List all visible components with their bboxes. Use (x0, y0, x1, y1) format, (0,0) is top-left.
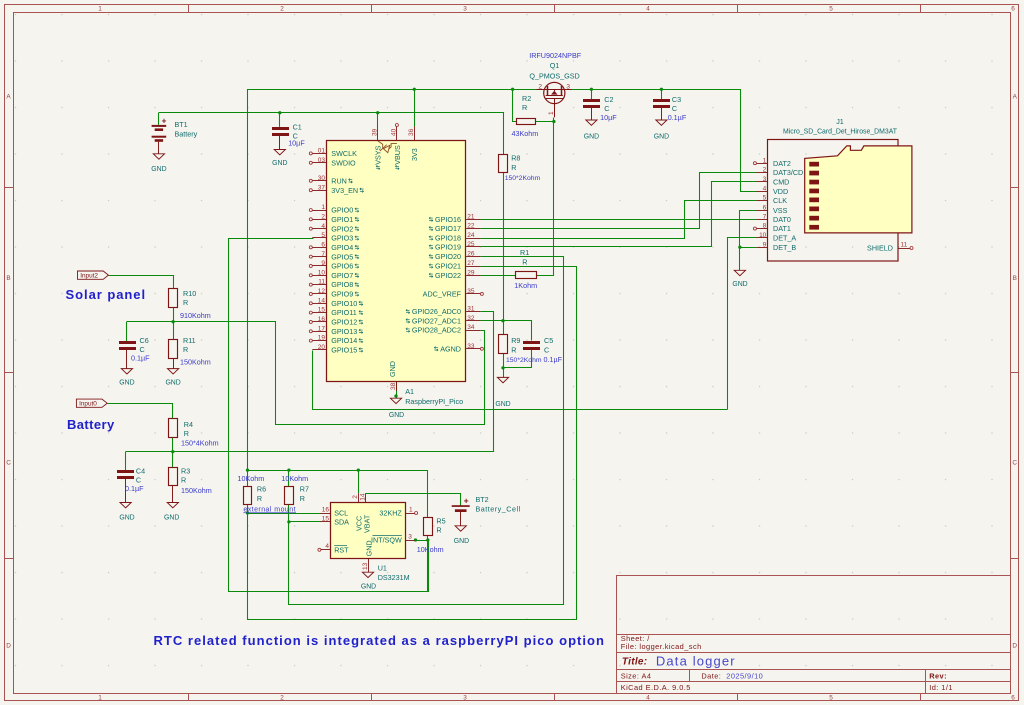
svg-text:11: 11 (318, 279, 325, 286)
capacitor C6 (119, 341, 136, 344)
wire solar divider node (127, 322, 485, 425)
svg-text:RaspberryPI_Pico: RaspberryPI_Pico (405, 397, 463, 406)
svg-text:1: 1 (409, 506, 413, 513)
svg-text:39: 39 (372, 128, 379, 136)
wire GPIO3 to INT chain (229, 239, 429, 592)
wire SD VSS to ground (740, 211, 757, 271)
pin 5 CLK (756, 200, 768, 202)
wire R5 bottom to INT/SQW (415, 536, 428, 541)
svg-text:2: 2 (280, 6, 284, 13)
wire C1 to rail (279, 113, 281, 127)
pin 4 GPIO2 (312, 228, 326, 230)
wire R11 top (173, 322, 175, 340)
svg-text:GND: GND (361, 583, 376, 590)
svg-text:GPIO9: GPIO9 (331, 290, 353, 299)
svg-text:GND: GND (389, 412, 404, 419)
ground (586, 120, 597, 125)
svg-text:Battery: Battery (175, 130, 198, 139)
wire VBAT to BT2 (366, 494, 461, 506)
resistor R1 (516, 272, 537, 279)
svg-text:1: 1 (98, 695, 102, 702)
svg-text:9: 9 (763, 241, 767, 248)
pin 26 GPIO20 (466, 256, 480, 258)
svg-text:GPIO8: GPIO8 (331, 280, 353, 289)
rtc pin VCC (358, 493, 360, 502)
svg-text:7: 7 (763, 213, 767, 220)
svg-text:35: 35 (467, 288, 475, 295)
pin 9 GPIO6 (312, 265, 326, 267)
pin 03 SWDIO (312, 162, 326, 164)
wire R9 top (503, 321, 505, 335)
svg-text:GPIO18: GPIO18 (435, 234, 461, 243)
wire R6 bottom to SCL (248, 505, 321, 514)
junction (426, 538, 429, 541)
svg-text:0.1µF: 0.1µF (544, 355, 563, 364)
pin 10 GPIO7 (312, 275, 326, 277)
wire battery divider node to ADC0 (126, 312, 494, 452)
svg-text:AGND: AGND (440, 344, 461, 353)
svg-text:13: 13 (362, 562, 369, 570)
svg-text:C4: C4 (136, 466, 145, 475)
svg-text:150Kohm: 150Kohm (181, 486, 212, 495)
svg-text:R: R (522, 257, 527, 266)
svg-text:31: 31 (467, 306, 475, 313)
junction (246, 511, 249, 514)
svg-text:C6: C6 (140, 336, 149, 345)
wire R6 top (247, 470, 249, 486)
svg-text:Size: A4: Size: A4 (621, 671, 652, 680)
svg-text:DAT1: DAT1 (773, 224, 791, 233)
wire C5 bottom (504, 350, 532, 368)
pin 40 VBUS (396, 127, 398, 141)
svg-text:R1: R1 (520, 248, 529, 257)
global label Input0 (76, 399, 107, 407)
svg-text:VBUS: VBUS (393, 145, 402, 165)
svg-text:10µF: 10µF (600, 113, 617, 122)
svg-text:2: 2 (763, 167, 767, 174)
wire GPIO22 to R1 (480, 275, 515, 277)
svg-text:C2: C2 (604, 95, 613, 104)
resistor R9 (499, 335, 508, 354)
svg-text:DAT3/CD: DAT3/CD (773, 168, 803, 177)
svg-text:GPIO2: GPIO2 (331, 224, 353, 233)
wire 3V3 pin (414, 89, 416, 126)
svg-text:GND: GND (119, 379, 134, 386)
junction (287, 468, 290, 471)
svg-text:14: 14 (360, 493, 367, 501)
svg-text:36: 36 (408, 128, 415, 136)
svg-text:R: R (183, 345, 188, 354)
svg-text:Solar panel: Solar panel (66, 287, 147, 302)
svg-text:15: 15 (318, 307, 326, 314)
pin 22 GPIO17 (466, 228, 480, 230)
pin 1 GPIO0 (312, 210, 326, 212)
pin 9 DET_B (756, 247, 768, 249)
svg-text:3: 3 (463, 6, 467, 13)
battery BT1 (152, 125, 167, 127)
svg-text:GPIO28_ADC2: GPIO28_ADC2 (412, 326, 461, 335)
svg-text:external mount: external mount (243, 506, 296, 513)
pin 5 GPIO3 (312, 237, 326, 239)
pico internal diode (378, 141, 383, 148)
svg-text:GPIO21: GPIO21 (435, 262, 461, 271)
svg-text:03: 03 (318, 157, 326, 164)
ic A1 RaspberryPI_Pico body (327, 141, 466, 382)
junction (394, 394, 397, 397)
svg-text:3V3: 3V3 (410, 148, 419, 161)
svg-text:38: 38 (390, 382, 397, 390)
svg-text:GND: GND (454, 538, 469, 545)
svg-text:1: 1 (763, 157, 767, 164)
frame column ticks (188, 5, 190, 13)
svg-text:GPIO10: GPIO10 (331, 299, 357, 308)
wire GPIO20 to SDA rail (289, 257, 564, 605)
svg-text:GND: GND (164, 514, 179, 521)
svg-text:910Kohm: 910Kohm (180, 311, 211, 320)
pin 10 DET_A (756, 237, 768, 239)
svg-text:GPIO4: GPIO4 (331, 243, 353, 252)
svg-text:C: C (1012, 459, 1017, 466)
svg-text:GPIO0: GPIO0 (331, 206, 353, 215)
svg-text:150*4Kohm: 150*4Kohm (181, 439, 219, 448)
svg-text:GPIO16: GPIO16 (435, 215, 461, 224)
svg-text:Input2: Input2 (80, 273, 98, 280)
svg-text:2: 2 (538, 83, 542, 90)
svg-text:20: 20 (318, 344, 326, 351)
pin 24 GPIO18 (466, 238, 480, 240)
pin 20 GPIO15 (312, 349, 326, 351)
svg-text:150*2Kohm: 150*2Kohm (506, 357, 542, 364)
svg-text:30: 30 (318, 175, 326, 182)
junction (171, 320, 174, 323)
sd card contact pads (809, 162, 819, 167)
svg-text:R11: R11 (183, 336, 196, 345)
svg-text:GPIO6: GPIO6 (331, 262, 353, 271)
svg-text:+: + (464, 495, 469, 505)
pin 27 GPIO21 (466, 266, 480, 268)
wire R7 top (288, 470, 290, 486)
svg-text:GPIO5: GPIO5 (331, 252, 353, 261)
ic U1 DS3231M body (331, 503, 406, 559)
svg-text:150*2Kohm: 150*2Kohm (505, 175, 541, 182)
resistor R5 (424, 518, 433, 536)
pin 33 AGND (466, 348, 480, 350)
svg-text:C: C (604, 104, 609, 113)
svg-text:B: B (6, 275, 10, 282)
junction (171, 450, 174, 453)
svg-text:34: 34 (467, 324, 475, 331)
svg-text:GND: GND (732, 281, 747, 288)
svg-text:GND: GND (119, 514, 134, 521)
pico bottom pin GND (396, 382, 398, 392)
capacitor C1 (272, 127, 289, 130)
ground (455, 526, 466, 531)
pin 8 DAT1 (756, 228, 768, 230)
wire VCC pin from rail (358, 470, 360, 493)
pin 4 VDD (756, 191, 768, 193)
svg-text:DAT0: DAT0 (773, 215, 791, 224)
ground (362, 572, 373, 577)
svg-text:GPIO27_ADC1: GPIO27_ADC1 (412, 316, 461, 325)
svg-text:0.1µF: 0.1µF (131, 353, 150, 362)
svg-text:RUN: RUN (331, 176, 347, 185)
junction (590, 88, 593, 91)
capacitor C2 (583, 99, 600, 102)
svg-text:11: 11 (901, 241, 908, 248)
svg-text:24: 24 (467, 232, 475, 239)
svg-text:32KHZ: 32KHZ (379, 509, 402, 518)
pin 39 VSYS (377, 127, 379, 141)
svg-text:R3: R3 (181, 466, 190, 475)
svg-text:GND: GND (584, 134, 599, 141)
svg-text:19: 19 (318, 335, 326, 342)
svg-text:Q1: Q1 (550, 61, 560, 70)
svg-text:R: R (184, 429, 189, 438)
pin 21 GPIO16 (466, 219, 480, 221)
ground (497, 377, 508, 382)
resistor R3 (169, 468, 178, 486)
svg-text:RTC related function is integr: RTC related function is integrated as a … (154, 633, 605, 648)
wire Input2 to R10 (109, 276, 174, 289)
svg-text:GPIO17: GPIO17 (435, 224, 461, 233)
svg-text:01: 01 (318, 148, 326, 155)
frame row ticks (5, 187, 14, 189)
svg-text:GPIO1: GPIO1 (331, 215, 353, 224)
svg-text:8: 8 (763, 223, 767, 230)
svg-text:4: 4 (646, 6, 650, 13)
pin 3 CMD (756, 181, 768, 183)
svg-text:DET_A: DET_A (773, 233, 796, 242)
svg-text:4: 4 (763, 185, 767, 192)
svg-text:3: 3 (408, 533, 412, 540)
junction (357, 468, 360, 471)
junction (376, 111, 379, 114)
svg-text:R5: R5 (436, 516, 445, 525)
junction (501, 366, 504, 369)
svg-text:2: 2 (352, 495, 359, 499)
wire GPIO21 to SCL rail (248, 267, 577, 620)
pin 35 ADC_VREF (466, 293, 480, 295)
svg-text:GPIO14: GPIO14 (331, 336, 357, 345)
junction (660, 88, 663, 91)
pin 6 GPIO4 (312, 247, 326, 249)
svg-text:Rev:: Rev: (929, 671, 947, 680)
svg-text:GND: GND (151, 166, 166, 173)
svg-text:GPIO7: GPIO7 (331, 271, 353, 280)
svg-text:R7: R7 (300, 485, 309, 494)
junction (501, 319, 504, 322)
svg-text:GPIO19: GPIO19 (435, 243, 461, 252)
svg-text:GPIO11: GPIO11 (331, 308, 356, 317)
rtc pin SDA (320, 521, 330, 523)
svg-text:Data logger: Data logger (656, 653, 736, 668)
wire GPIO16 to DAT0 (480, 219, 756, 221)
svg-text:SWDIO: SWDIO (331, 158, 356, 167)
svg-text:R: R (522, 103, 527, 112)
svg-text:4: 4 (325, 543, 329, 550)
svg-text:C3: C3 (672, 95, 681, 104)
svg-text:INT/SQW: INT/SQW (371, 536, 402, 545)
svg-text:KiCad E.D.A. 9.0.5: KiCad E.D.A. 9.0.5 (621, 683, 691, 692)
wire pico GND pin node (396, 382, 398, 399)
wire gate chain down to R1 (537, 118, 554, 276)
svg-text:DS3231M: DS3231M (378, 573, 410, 582)
svg-text:32: 32 (467, 315, 475, 322)
wire R4 bottom (172, 437, 174, 452)
wire R10 bottom (173, 308, 175, 322)
svg-text:33: 33 (467, 343, 475, 350)
svg-text:10Kohm: 10Kohm (238, 474, 265, 483)
svg-text:1: 1 (548, 111, 555, 115)
wire R3 top (172, 452, 174, 468)
svg-text:Battery: Battery (67, 417, 115, 432)
svg-text:SDA: SDA (334, 518, 349, 527)
svg-text:GPIO15: GPIO15 (331, 346, 357, 355)
svg-text:6: 6 (1011, 6, 1015, 13)
resistor R7 (285, 487, 294, 505)
svg-text:R: R (257, 494, 262, 503)
svg-text:Title:: Title: (622, 656, 648, 667)
pin 12 GPIO9 (312, 293, 326, 295)
resistor R2 (517, 119, 536, 125)
rtc pin 32KHZ (405, 513, 414, 515)
svg-text:22: 22 (467, 223, 475, 230)
ground (167, 503, 178, 508)
pin 7 DAT0 (756, 219, 768, 221)
ground (390, 398, 401, 403)
svg-text:7: 7 (321, 251, 325, 258)
svg-text:D: D (1012, 642, 1017, 649)
pin 17 GPIO13 (312, 331, 326, 333)
rtc pin GND (368, 559, 370, 572)
wire R7 bottom to SDA (289, 505, 321, 522)
svg-text:21: 21 (467, 213, 475, 220)
svg-text:2: 2 (321, 213, 325, 220)
svg-text:R2: R2 (522, 94, 531, 103)
svg-text:C: C (672, 104, 677, 113)
svg-text:GPIO22: GPIO22 (435, 271, 461, 280)
sd SHIELD pin 11 (898, 248, 910, 250)
svg-text:CMD: CMD (773, 178, 789, 187)
svg-text:26: 26 (467, 251, 475, 258)
svg-text:37: 37 (318, 184, 326, 191)
svg-text:BT2: BT2 (476, 495, 489, 504)
svg-text:GPIO13: GPIO13 (331, 327, 357, 336)
svg-text:Q_PMOS_GSD: Q_PMOS_GSD (529, 71, 579, 80)
svg-text:1: 1 (321, 204, 325, 211)
resistor R4 (169, 419, 178, 438)
junction (511, 88, 514, 91)
rtc pin VBAT (365, 493, 367, 502)
pin 31 GPIO26_ADC0 (466, 311, 480, 313)
pin 25 GPIO19 (466, 246, 480, 248)
svg-text:25: 25 (467, 241, 475, 248)
capacitor C5 (523, 341, 540, 344)
svg-text:R: R (511, 345, 516, 354)
svg-text:GND: GND (654, 134, 669, 141)
svg-text:R10: R10 (183, 289, 196, 298)
wire R2 to gate junction (536, 121, 554, 123)
svg-text:9: 9 (321, 260, 325, 267)
svg-text:R8: R8 (511, 154, 520, 163)
svg-text:ADC_VREF: ADC_VREF (423, 290, 462, 299)
wire R9 bottom node (503, 354, 505, 378)
svg-text:Date:: Date: (701, 671, 721, 680)
ground (656, 120, 667, 125)
ground (121, 369, 132, 374)
svg-text:VBAT: VBAT (363, 514, 372, 533)
svg-text:R: R (183, 298, 188, 307)
capacitor C3 (653, 99, 670, 102)
svg-text:Battery_Cell: Battery_Cell (476, 505, 521, 514)
svg-text:12: 12 (318, 288, 326, 295)
svg-text:1: 1 (98, 6, 102, 13)
pin 32 GPIO27_ADC1 (466, 320, 480, 322)
wire 3V3 rail right segment to SD VDD (572, 90, 757, 192)
svg-text:6: 6 (321, 241, 325, 248)
svg-text:10: 10 (759, 232, 767, 239)
ground (274, 150, 285, 155)
wire BT1 to rail (158, 113, 160, 125)
svg-text:DAT2: DAT2 (773, 159, 791, 168)
pin 16 GPIO12 (312, 321, 326, 323)
svg-text:6: 6 (763, 204, 767, 211)
svg-text:A: A (1013, 93, 1018, 100)
pin 14 GPIO10 (312, 303, 326, 305)
svg-text:GPIO3: GPIO3 (331, 234, 353, 243)
wire C2 branch (591, 89, 593, 99)
svg-text:R: R (181, 476, 186, 485)
svg-text:+: + (162, 117, 167, 126)
svg-text:GND: GND (272, 160, 287, 167)
svg-text:1Kohm: 1Kohm (514, 281, 537, 290)
svg-text:VDD: VDD (773, 187, 788, 196)
wire Input0 to R4 (108, 404, 173, 419)
svg-text:16: 16 (318, 316, 326, 323)
svg-text:4: 4 (646, 695, 650, 702)
svg-text:10Kohm: 10Kohm (417, 545, 444, 554)
wire INT junction down (427, 540, 429, 591)
svg-text:15: 15 (322, 515, 330, 522)
wire SD DET_A down to GPIO15 rail (728, 238, 757, 410)
wire R8 bottom to GPIO27 junction (503, 173, 505, 321)
junction (414, 538, 417, 541)
svg-text:GND: GND (364, 540, 373, 556)
global label Input2 (78, 271, 109, 279)
pin 6 VSS (756, 210, 768, 212)
svg-text:C1: C1 (293, 123, 302, 132)
wire GPIO17 to DAT3/CD (481, 173, 757, 229)
svg-text:5: 5 (321, 232, 325, 239)
wire VSYS pin (377, 113, 379, 127)
junction (246, 468, 249, 471)
wire C6 top (126, 322, 128, 342)
svg-text:4: 4 (321, 223, 325, 230)
pin 37 3V3_EN (312, 190, 326, 192)
resistor R6 (244, 487, 252, 505)
svg-text:A1: A1 (405, 387, 414, 396)
svg-text:GPIO20: GPIO20 (435, 252, 461, 261)
wire C4 top (125, 452, 127, 470)
svg-text:3: 3 (463, 695, 467, 702)
svg-text:16: 16 (322, 506, 330, 513)
svg-text:GND: GND (495, 401, 510, 408)
wire GPIO27 to divider (480, 320, 503, 322)
wire C5 branch top (504, 321, 532, 341)
svg-text:VSS: VSS (773, 206, 788, 215)
svg-text:U1: U1 (378, 563, 387, 572)
svg-text:GND: GND (165, 379, 180, 386)
